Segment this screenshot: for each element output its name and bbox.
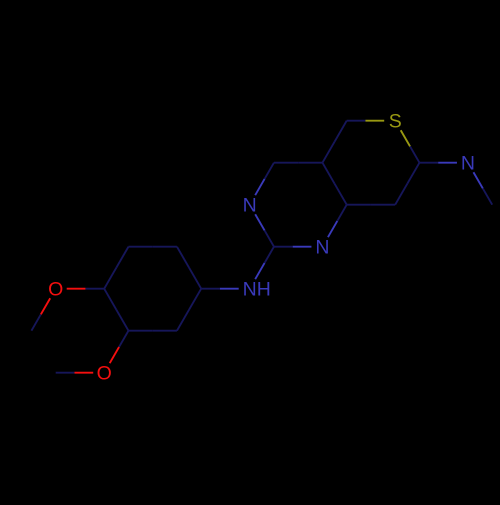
svg-text:H: H [257,279,271,301]
svg-text:N: N [461,153,475,175]
svg-text:N: N [315,237,329,259]
svg-text:O: O [97,363,112,385]
svg-text:O: O [48,279,63,301]
svg-text:N: N [243,195,257,217]
svg-text:S: S [389,111,402,133]
svg-text:N: N [243,279,257,301]
